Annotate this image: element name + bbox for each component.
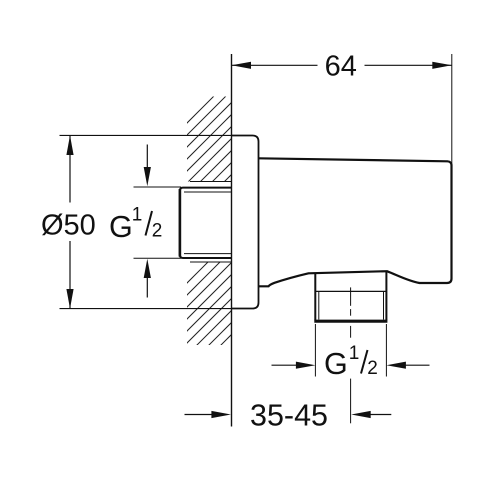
svg-text:Ø50: Ø50 [41,210,96,242]
outlet G1/2 dim extension left [314,324,316,377]
wall hole bottom edge [190,261,232,263]
dim 64 extension line right [451,54,453,163]
outlet pipe right edge [385,271,387,320]
wall hatch bottom patch [160,220,250,406]
thread G1/2 dim extension top [134,186,182,188]
wall hole top edge [190,181,232,183]
body outline [259,158,452,286]
svg-text:35-45: 35-45 [250,398,328,432]
thread dim arrow up [146,277,148,298]
inlet pipe left end thick edge [179,189,182,257]
outlet thread minor right [383,291,385,319]
dim O50 arrow down [66,289,73,309]
dim 64 line [232,64,318,66]
outlet G1/2 dim extension right [385,324,387,377]
outlet thread minor left [318,291,320,319]
wall surface line [231,54,233,427]
flange (escutcheon) [232,136,259,309]
svg-text:64: 64 [325,50,357,82]
dim 64 arrow left [232,62,252,69]
inlet thread pipe outline [180,188,232,258]
svg-text:2: 2 [367,358,378,379]
thread dim arrow down [146,145,148,169]
outlet centerline [350,287,352,423]
outlet pipe left edge [314,273,316,320]
svg-text:1: 1 [349,343,360,364]
outlet thread start line [315,290,386,292]
inlet thread minor line bottom [184,253,232,255]
dim O50 line [69,136,71,203]
dim 35-45 arrow pointing right at wall [185,414,213,416]
svg-text:G: G [109,210,133,244]
outlet bottom thick edge [314,320,387,323]
outlet dim arrow pointing right [272,364,298,366]
dim O50 extension top [60,134,232,136]
dim O50 arrow up [66,135,73,155]
svg-text:1: 1 [132,205,143,226]
thread G1/2 label upper [109,205,162,244]
thread G1/2 dim extension bottom [134,257,182,259]
wall hatch top patch [160,60,250,246]
dim 64 arrow right [432,62,452,69]
inlet thread minor line top [184,191,232,193]
svg-text:2: 2 [152,220,163,241]
dim O50 extension bottom [60,308,232,310]
outlet G1/2 label [324,343,378,381]
dim 35-45 arrow pointing left at centerline [370,414,391,416]
outlet dim arrow pointing left [405,364,430,366]
svg-text:G: G [324,347,348,381]
